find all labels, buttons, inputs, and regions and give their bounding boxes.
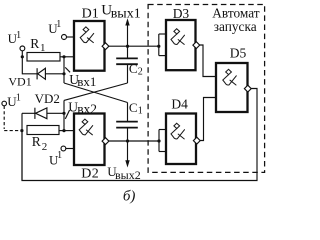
gate D3	[166, 20, 196, 70]
wire R2 right to D2 upper input	[59, 130, 74, 132]
junction D4 input	[157, 139, 160, 142]
capacitor C1 plates	[116, 121, 138, 123]
junction R2 right node Uvx2	[62, 129, 65, 132]
dashed wire U1 to R2 node	[3, 106, 5, 129]
diode VD1 triangle	[38, 68, 46, 79]
terminal circle U1 top-left	[20, 46, 25, 51]
wire VD2 row	[22, 112, 64, 114]
svg-text:1: 1	[16, 30, 21, 41]
svg-text:R: R	[32, 134, 41, 149]
ampersand D3	[171, 29, 185, 45]
svg-text:VD1: VD1	[8, 74, 31, 88]
wire node vertical x64 upper	[63, 57, 65, 83]
junction R1 right node Uvx1	[62, 55, 65, 58]
capacitor C2 plates	[116, 57, 138, 59]
wire U1 circle to D2 lower input	[66, 148, 74, 150]
svg-text:2: 2	[138, 66, 143, 77]
wire D3 output to D5 upper input	[200, 45, 216, 77]
output diamond D3	[193, 42, 200, 49]
output diamond D4	[193, 137, 200, 144]
terminal circle U1 D1 upper input	[62, 35, 67, 40]
junction D1 output node Uvyh1	[126, 45, 129, 48]
svg-text:2: 2	[42, 141, 48, 153]
D4 input bracket	[158, 130, 160, 152]
diode VD2 triangle	[36, 108, 47, 119]
terminal circle U1 bottom-left (dashed)	[2, 101, 7, 106]
ampersand D2	[79, 119, 93, 135]
arrow U_vyh2	[127, 141, 129, 161]
svg-text:1: 1	[138, 106, 143, 117]
gate D5	[216, 63, 248, 112]
svg-text:C: C	[129, 61, 138, 76]
dashed box automaton	[148, 5, 265, 173]
diagonal wire C2 to node x64	[64, 83, 128, 100]
junction R2 left	[20, 129, 23, 132]
junction VD1 right	[62, 72, 65, 75]
output diamond D5	[244, 85, 251, 92]
wire R1 right to D1 lower input	[60, 56, 74, 58]
diagonal wire to C1	[64, 83, 128, 103]
wire U1 circle to D1 upper input	[67, 36, 75, 38]
svg-text:вх1: вх1	[77, 74, 96, 89]
junction D2 output node Uvyh2	[126, 139, 129, 142]
svg-text:1: 1	[16, 93, 21, 104]
svg-text:VD2: VD2	[35, 91, 60, 106]
wire left rail lower	[21, 113, 23, 180]
svg-text:D4: D4	[171, 96, 188, 111]
arrow U_vyh1	[127, 25, 129, 47]
resistor R2	[27, 126, 59, 135]
svg-text:1: 1	[40, 42, 46, 54]
ampersand D4	[171, 123, 185, 139]
leader tick U_vx1	[65, 67, 70, 72]
svg-text:R: R	[30, 36, 39, 51]
junction R1 left	[21, 55, 24, 58]
resistor R1	[27, 53, 60, 62]
svg-text:C: C	[129, 100, 138, 115]
gate D2	[74, 114, 105, 166]
wire D1 output row	[109, 45, 159, 47]
svg-text:вых1: вых1	[111, 6, 141, 21]
wire D5 output feedback loop	[22, 89, 257, 181]
wire D2 output row	[109, 140, 159, 142]
wire C1 vertical upper	[127, 103, 129, 122]
wire top-left circle down to R1 node	[21, 51, 23, 75]
svg-text:D3: D3	[173, 6, 190, 21]
svg-text:запуска: запуска	[214, 19, 257, 34]
terminal circle U1 D2 lower input	[61, 146, 66, 151]
wire C2 vertical upper	[127, 46, 129, 58]
svg-text:D5: D5	[230, 46, 247, 61]
gate D4	[166, 114, 196, 165]
D3 input bracket	[158, 34, 160, 56]
wire C2 vertical lower	[127, 64, 129, 83]
wire VD1 row	[22, 73, 64, 75]
svg-text:1: 1	[57, 150, 62, 161]
wire node vertical x64 lower	[63, 100, 65, 130]
svg-text:1: 1	[56, 19, 61, 30]
svg-text:б): б)	[123, 188, 136, 204]
wire C1 vertical lower	[127, 128, 129, 141]
svg-text:вх2: вх2	[77, 102, 97, 117]
leader tick U_vx2	[65, 110, 69, 119]
wire D4 output to D5 lower input	[200, 98, 216, 141]
diode VD1 cathode bar	[36, 68, 38, 79]
output diamond D1	[102, 43, 109, 50]
output diamond D2	[102, 138, 109, 145]
svg-text:D2: D2	[81, 166, 99, 181]
ampersand D1	[80, 27, 94, 43]
junction VD2 right	[62, 112, 65, 115]
gate D1	[74, 21, 105, 71]
svg-text:D1: D1	[82, 6, 99, 21]
diode VD2 cathode bar	[34, 108, 36, 119]
junction D3 input	[157, 45, 160, 48]
svg-text:вых2: вых2	[115, 168, 141, 182]
ampersand D5	[223, 69, 237, 85]
